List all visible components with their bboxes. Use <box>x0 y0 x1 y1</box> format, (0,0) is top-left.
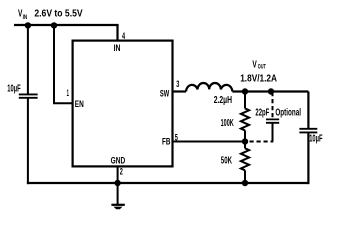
capacitor C2 bottom lead <box>307 133 309 184</box>
svg-text:1.8V/1.2A: 1.8V/1.2A <box>240 72 277 84</box>
resistor R1 100K body <box>241 108 249 130</box>
svg-text:3: 3 <box>176 79 179 90</box>
node GND pin junction <box>114 180 120 186</box>
resistor R1 100K top lead <box>244 92 246 109</box>
resistor R2 50K top lead <box>244 142 246 149</box>
wire ground bus <box>27 182 310 184</box>
resistor R2 50K body <box>241 148 249 170</box>
wire dashed FB to C3 <box>250 141 274 143</box>
wire FB stub <box>173 141 246 143</box>
wire SW stub <box>173 90 187 92</box>
capacitor C1 plates <box>19 94 38 97</box>
capacitor C2 10uF output top lead <box>307 92 309 129</box>
svg-text:50K: 50K <box>221 156 232 167</box>
svg-text:2.6V to 5.5V: 2.6V to 5.5V <box>34 8 82 20</box>
capacitor C3 plates <box>266 119 279 122</box>
svg-text:GND: GND <box>111 155 126 166</box>
label VOUT <box>252 58 266 70</box>
node VOUT-R1 junction <box>242 88 248 94</box>
inductor L1 <box>186 83 232 92</box>
capacitor C3 22pF dashed top lead <box>272 92 274 119</box>
svg-text:4: 4 <box>122 31 126 42</box>
svg-text:100K: 100K <box>221 118 234 129</box>
svg-text:SW: SW <box>160 89 169 100</box>
node FB junction <box>242 138 248 144</box>
svg-text:IN: IN <box>114 43 121 54</box>
wire pin2 to ground <box>117 166 119 204</box>
capacitor C2 plates <box>299 129 317 133</box>
svg-text:FB: FB <box>162 137 170 148</box>
svg-text:OUT: OUT <box>258 63 266 70</box>
resistor R1 100K bottom lead <box>244 130 246 141</box>
svg-text:V: V <box>252 58 256 70</box>
node VOUT-C2 junction <box>268 88 274 94</box>
capacitor C1 bottom lead <box>27 98 29 184</box>
svg-text:22pF: 22pF <box>255 107 269 118</box>
svg-text:IN: IN <box>23 14 28 21</box>
svg-text:Optional: Optional <box>275 107 301 118</box>
wire EN lead <box>54 25 73 103</box>
svg-text:1: 1 <box>67 88 70 99</box>
wire pin4 stub <box>116 25 118 41</box>
node VIN-C1 junction <box>25 22 31 28</box>
resistor R2 50K bottom lead <box>244 170 246 184</box>
node VIN-EN junction <box>51 22 57 28</box>
svg-text:10µF: 10µF <box>7 84 20 95</box>
svg-text:2: 2 <box>120 167 123 178</box>
svg-text:2.2µH: 2.2µH <box>214 95 232 106</box>
node R2 bottom junction <box>242 180 248 186</box>
capacitor C3 bottom lead <box>272 123 274 141</box>
svg-text:10µF: 10µF <box>309 133 322 144</box>
capacitor C1 10uF input: top lead <box>27 25 29 94</box>
label VIN <box>18 8 83 21</box>
wire VIN rail <box>14 24 119 26</box>
op IC U1 body <box>73 41 173 167</box>
svg-text:EN: EN <box>75 99 84 110</box>
ground symbol <box>111 205 124 209</box>
wire VOUT rail <box>232 90 308 92</box>
